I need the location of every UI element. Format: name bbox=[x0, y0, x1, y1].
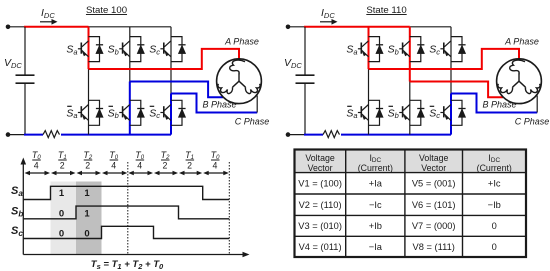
svg-text:A Phase: A Phase bbox=[224, 37, 259, 47]
svg-text:2: 2 bbox=[85, 161, 90, 171]
wire bottom rail return left (blue) bbox=[304, 134, 323, 136]
interval arrow T0/4 bbox=[131, 172, 150, 174]
wire leg phase B lower bbox=[409, 82, 411, 135]
svg-text:(Current): (Current) bbox=[358, 163, 393, 173]
svg-text:State 110: State 110 bbox=[366, 5, 406, 16]
svg-text:+Ib: +Ib bbox=[369, 221, 382, 231]
wire phase C to motor bbox=[171, 94, 257, 113]
svg-text:4: 4 bbox=[34, 161, 39, 171]
svg-text:2: 2 bbox=[60, 161, 65, 171]
wire top rail right section bbox=[89, 26, 172, 28]
wire leg phase A upper bbox=[88, 27, 90, 69]
wire phase A to motor bbox=[369, 49, 520, 69]
svg-text:V1 = (100): V1 = (100) bbox=[298, 179, 342, 189]
svg-text:(Current): (Current) bbox=[477, 163, 512, 173]
node + terminal bbox=[6, 25, 11, 30]
wire phase C stub bbox=[256, 96, 258, 113]
node + terminal bbox=[286, 25, 291, 30]
svg-text:V4 = (011): V4 = (011) bbox=[299, 242, 342, 252]
interval arrow T1/2 bbox=[182, 172, 199, 174]
wire phase B to motor bbox=[410, 82, 503, 98]
svg-text:0: 0 bbox=[59, 229, 64, 240]
node - terminal bbox=[6, 132, 11, 137]
wire top rail energized (red) bbox=[24, 26, 89, 28]
svg-text:0: 0 bbox=[492, 242, 497, 252]
resistor shunt bbox=[43, 131, 60, 138]
wire bottom rail return right (blue) bbox=[341, 134, 451, 136]
svg-text:Voltage: Voltage bbox=[305, 153, 334, 163]
wire bottom rail return left (blue) bbox=[24, 134, 43, 136]
svg-text:V3 = (010): V3 = (010) bbox=[298, 221, 342, 231]
wire leg phase C upper bbox=[450, 27, 452, 94]
wire leg phase C lower (blue) bbox=[450, 94, 452, 135]
transistor Sb bbox=[119, 100, 141, 125]
transistor Sc bbox=[440, 37, 462, 62]
interval arrow T1/2 bbox=[54, 172, 73, 174]
resistor shunt bbox=[323, 131, 340, 138]
svg-text:Vector: Vector bbox=[308, 163, 333, 173]
shaded region T1/2 bbox=[51, 182, 77, 255]
table grid bbox=[295, 150, 527, 258]
waveform Sa bbox=[23, 186, 229, 199]
svg-text:V8 = (111): V8 = (111) bbox=[413, 242, 455, 252]
table header background bbox=[295, 150, 527, 173]
wire phase A to motor bbox=[89, 49, 240, 69]
svg-text:4: 4 bbox=[111, 161, 116, 171]
svg-text:0: 0 bbox=[59, 209, 64, 220]
svg-text:−Ib: −Ib bbox=[488, 200, 501, 210]
svg-text:1: 1 bbox=[59, 188, 65, 199]
wire bottom rail black bbox=[8, 134, 25, 136]
capacitor DC link bbox=[296, 74, 315, 76]
wire leg phase A upper bbox=[368, 27, 370, 69]
svg-text:V2 = (110): V2 = (110) bbox=[299, 200, 342, 210]
wire leg phase C lower (blue) bbox=[170, 94, 172, 135]
svg-text:V5 = (001): V5 = (001) bbox=[412, 179, 456, 189]
wire DC link bottom bbox=[24, 83, 26, 134]
svg-text:1: 1 bbox=[84, 188, 90, 199]
transistor Sc bbox=[160, 100, 182, 125]
svg-text:4: 4 bbox=[213, 161, 218, 171]
wire top rail energized (red) bbox=[304, 26, 410, 28]
svg-text:B Phase: B Phase bbox=[482, 100, 516, 110]
svg-text:State 100: State 100 bbox=[86, 5, 127, 16]
wire leg phase B upper bbox=[129, 27, 131, 82]
svg-text:Ts = T1 + T2 + T0: Ts = T1 + T2 + T0 bbox=[91, 259, 164, 271]
svg-text:−Ic: −Ic bbox=[369, 200, 382, 210]
wire bottom rail black bbox=[288, 134, 305, 136]
transistor Sa bbox=[78, 37, 100, 62]
wire DC link bottom bbox=[304, 83, 306, 134]
transistor Sb bbox=[119, 37, 141, 62]
arrow IDC bbox=[320, 21, 333, 23]
motor (3-phase machine) bbox=[217, 59, 262, 104]
shaded region T2/2 bbox=[76, 182, 102, 255]
wire top rail from + terminal bbox=[288, 26, 305, 28]
transistor Sa bbox=[358, 100, 380, 125]
wire leg phase B upper bbox=[409, 27, 411, 82]
x axis bbox=[23, 254, 244, 256]
wire leg phase A lower bbox=[88, 69, 90, 135]
svg-text:V7 = (000): V7 = (000) bbox=[412, 221, 456, 231]
transistor Sb bbox=[399, 100, 421, 125]
waveform Sc bbox=[23, 226, 229, 238]
motor (3-phase machine) bbox=[497, 59, 542, 104]
wire DC link top bbox=[304, 27, 306, 75]
wire phase C to motor bbox=[451, 94, 537, 113]
wire leg phase B lower bbox=[129, 82, 131, 135]
svg-text:−Ia: −Ia bbox=[369, 242, 383, 252]
wire leg phase A lower bbox=[368, 69, 370, 135]
svg-text:+Ia: +Ia bbox=[369, 179, 383, 189]
capacitor DC link bbox=[16, 74, 35, 76]
y axis bbox=[22, 163, 24, 255]
svg-text:4: 4 bbox=[137, 161, 142, 171]
waveform Sb bbox=[23, 206, 229, 219]
svg-text:2: 2 bbox=[187, 161, 192, 171]
svg-text:Voltage: Voltage bbox=[419, 153, 448, 163]
svg-text:1: 1 bbox=[84, 209, 90, 220]
svg-text:+Ic: +Ic bbox=[488, 179, 501, 189]
svg-text:Vector: Vector bbox=[421, 163, 446, 173]
svg-text:A Phase: A Phase bbox=[504, 37, 539, 47]
transistor Sc bbox=[160, 37, 182, 62]
dotted separator mid bbox=[127, 162, 129, 255]
interval arrow T2/2 bbox=[157, 172, 175, 174]
transistor Sc bbox=[440, 100, 462, 125]
wire phase B to motor bbox=[130, 82, 223, 98]
svg-text:0: 0 bbox=[492, 221, 497, 231]
wire DC link top bbox=[24, 27, 26, 75]
wire leg phase C upper bbox=[170, 27, 172, 94]
transistor Sb bbox=[399, 37, 421, 62]
svg-text:B Phase: B Phase bbox=[202, 100, 236, 110]
interval arrow T0/4 bbox=[206, 172, 226, 174]
svg-text:C Phase: C Phase bbox=[235, 117, 270, 127]
node - terminal bbox=[286, 132, 291, 137]
wire phase C stub bbox=[536, 96, 538, 113]
transistor Sa bbox=[78, 100, 100, 125]
transistor Sa bbox=[358, 37, 380, 62]
dotted separator end bbox=[228, 162, 230, 255]
interval arrow T2/2 bbox=[80, 172, 99, 174]
wire top rail from + terminal bbox=[8, 26, 25, 28]
wire top rail right section bbox=[410, 26, 451, 28]
svg-text:2: 2 bbox=[163, 161, 168, 171]
arrow IDC bbox=[40, 21, 53, 23]
interval arrow T0/4 bbox=[28, 172, 48, 174]
svg-text:V6 = (101): V6 = (101) bbox=[412, 200, 456, 210]
interval arrow T0/4 bbox=[105, 172, 124, 174]
svg-text:0: 0 bbox=[84, 229, 89, 240]
svg-text:C Phase: C Phase bbox=[515, 117, 550, 127]
wire bottom rail return right (blue) bbox=[61, 134, 171, 136]
